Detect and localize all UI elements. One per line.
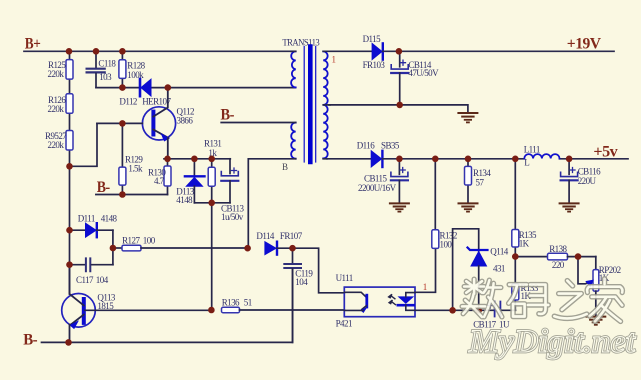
- svg-text:FR107: FR107: [280, 231, 303, 241]
- svg-text:D112: D112: [119, 97, 137, 107]
- resistor R130: [148, 159, 171, 195]
- wire B- upper: [221, 122, 296, 124]
- wire B- bottom rail: [42, 269, 293, 343]
- capacitor CB117 (polar, horizontal): [473, 302, 515, 330]
- junction +5v/CB115: [396, 156, 403, 163]
- wire B+ rail: [24, 50, 292, 52]
- resistor R128: [119, 51, 146, 87]
- svg-text:R131: R131: [204, 139, 221, 149]
- wire emitter net y=158.8: [164, 158, 230, 160]
- ground (below CB115): [390, 203, 409, 211]
- diode D114: [256, 231, 302, 254]
- svg-text:1u/50v: 1u/50v: [221, 212, 244, 222]
- svg-text:MyDigit.net: MyDigit.net: [468, 324, 636, 360]
- shunt regulator Q114 (431): [468, 247, 509, 311]
- resistor R133: [512, 257, 539, 311]
- junction +5v/CB116: [566, 156, 573, 163]
- svg-text:R134: R134: [473, 168, 491, 178]
- junction +5v/R134: [465, 156, 472, 163]
- svg-text:100k: 100k: [127, 70, 144, 80]
- svg-text:C117: C117: [76, 275, 94, 285]
- optocoupler U111: [336, 273, 415, 329]
- junction primary return/D114 anode: [244, 245, 251, 252]
- junction D111-C117/R127: [110, 245, 117, 252]
- junction B- stub/R129: [119, 191, 126, 198]
- junction left column/Q112 base link: [66, 163, 73, 170]
- svg-text:431: 431: [493, 264, 505, 274]
- svg-text:1815: 1815: [97, 301, 114, 311]
- svg-text:Q114: Q114: [490, 247, 509, 257]
- svg-text:1: 1: [332, 55, 337, 65]
- svg-text:U111: U111: [336, 273, 353, 283]
- junction Q112 emitter/R130: [164, 156, 171, 163]
- resistor R131: [204, 139, 221, 203]
- svg-text:104: 104: [295, 277, 308, 287]
- primary bottom winding: [291, 123, 296, 159]
- capacitor CB114 (polar): [391, 51, 439, 105]
- svg-text:D116: D116: [357, 140, 376, 150]
- junction D112/Q112 collector/primary: [165, 84, 172, 91]
- wire D111/C117 right link: [112, 230, 114, 265]
- svg-text:3866: 3866: [177, 116, 194, 126]
- junction R131 top: [208, 156, 215, 163]
- primary top winding: [291, 51, 296, 87]
- junction +19V/CB114: [396, 48, 403, 55]
- junction left column/C117: [66, 261, 73, 268]
- junction C118/R128/D112: [119, 84, 126, 91]
- wire secondary tap lead: [323, 104, 330, 106]
- svg-text:220k: 220k: [48, 104, 65, 114]
- wire +5v rail: [382, 158, 628, 160]
- svg-text:1.5k: 1.5k: [128, 164, 143, 174]
- junction B+/R125: [66, 48, 73, 55]
- core: [303, 47, 305, 163]
- junction D113 top: [191, 156, 198, 163]
- svg-text:B-: B-: [97, 179, 110, 196]
- svg-text:D114: D114: [256, 231, 275, 241]
- svg-text:L: L: [524, 158, 529, 168]
- svg-text:47U/50V: 47U/50V: [408, 68, 439, 78]
- wire secondary tap to ground: [329, 105, 468, 113]
- capacitor C118: [87, 51, 117, 87]
- ground (below RP202): [586, 317, 605, 325]
- capacitor CB116 (polar): [561, 159, 602, 203]
- capacitor C117: [70, 258, 113, 285]
- diode D112 (pointing left): [119, 79, 171, 107]
- svg-text:4148: 4148: [176, 195, 193, 205]
- svg-text:C118: C118: [98, 59, 116, 69]
- junction D114 out/C119: [289, 245, 296, 252]
- junction Q114 anode/feedback net: [475, 307, 482, 314]
- resistor R136: [222, 298, 345, 313]
- junction Q113 collector net/R136: [208, 307, 215, 314]
- wire Q114 cathode link: [453, 229, 479, 310]
- wire transformer bottom to D114 junction: [248, 159, 295, 248]
- resistor R126: [48, 94, 74, 114]
- svg-text:+19V: +19V: [567, 36, 602, 53]
- zener diode D113: [176, 159, 204, 205]
- wire opto LED cathode to junction: [415, 309, 453, 311]
- capacitor CB115 (polar): [358, 159, 408, 203]
- svg-text:B: B: [282, 162, 288, 172]
- svg-text:R136: R136: [222, 298, 240, 308]
- wire secondary bottom lead: [323, 158, 327, 160]
- transformer TRANS113: [282, 37, 336, 172]
- svg-text:B+: B+: [25, 35, 41, 52]
- resistor R125: [48, 60, 74, 80]
- wire B- stub: [96, 194, 168, 196]
- svg-text:R138: R138: [549, 244, 567, 254]
- junction Q112 base/R129: [119, 120, 126, 127]
- svg-text:FR103: FR103: [363, 60, 386, 70]
- svg-text:4148: 4148: [101, 214, 118, 224]
- resistor R132: [432, 159, 457, 250]
- wire secondary top to D115: [323, 50, 372, 52]
- junction R135/R138/R133: [512, 253, 519, 260]
- secondary winding: [323, 51, 328, 158]
- wire left vertical column: [69, 51, 71, 294]
- svg-text:220U: 220U: [578, 176, 597, 186]
- svg-text:2200U/16V: 2200U/16V: [358, 183, 397, 193]
- svg-text:B-: B-: [23, 332, 37, 349]
- resistor R129: [119, 123, 143, 194]
- svg-text:220: 220: [552, 260, 565, 270]
- svg-text:220k: 220k: [48, 69, 65, 79]
- svg-text:103: 103: [99, 72, 112, 82]
- wire bottom feedback net: [453, 309, 494, 311]
- svg-text:SB35: SB35: [381, 140, 400, 150]
- svg-text:4.7: 4.7: [154, 176, 165, 186]
- resistor R135: [512, 159, 537, 257]
- opto LED: [399, 297, 413, 303]
- wire +19V rail: [383, 50, 614, 52]
- svg-text:104: 104: [96, 275, 109, 285]
- diode D116: [357, 140, 400, 167]
- svg-text:TRANS113: TRANS113: [282, 37, 320, 47]
- wire Q112 base to left column: [70, 123, 98, 166]
- svg-text:D115: D115: [363, 34, 382, 44]
- svg-text:100: 100: [440, 240, 453, 250]
- wire clamp net y=87.6: [96, 87, 296, 89]
- diode D115: [363, 34, 386, 70]
- svg-text:CB115: CB115: [364, 174, 387, 184]
- svg-text:B-: B-: [221, 107, 235, 124]
- svg-text:1: 1: [423, 282, 428, 292]
- capacitor C119: [284, 248, 313, 342]
- opto arrows: [389, 294, 395, 299]
- ground (below R134): [459, 203, 478, 211]
- potentiometer RP202: [578, 257, 621, 317]
- junction B+/C118: [93, 48, 100, 55]
- wire down from R131 bottom to R136 net: [211, 203, 213, 310]
- wire D114 output to opto: [277, 248, 344, 293]
- diode D111: [70, 214, 118, 238]
- svg-text:R127: R127: [122, 236, 140, 246]
- wire bottom of D113/R131/CB113: [194, 202, 230, 204]
- resistor R9527: [45, 131, 73, 151]
- resistor R138: [515, 244, 596, 270]
- wire B+ rail into winding: [291, 50, 296, 52]
- svg-text:P421: P421: [336, 319, 352, 329]
- wire opto pin1 to R132: [415, 248, 436, 292]
- resistor R127: [113, 236, 248, 251]
- svg-text:L111: L111: [524, 144, 540, 154]
- watermark: [462, 279, 636, 360]
- junction B+/R128: [119, 48, 126, 55]
- transistor Q113: [62, 265, 212, 343]
- inductor L111: [524, 144, 560, 167]
- junction opto cathode/Q114 link: [449, 307, 456, 314]
- transistor Q112: [97, 88, 194, 159]
- ground (below CB116): [560, 203, 579, 211]
- svg-text:220k: 220k: [48, 140, 65, 150]
- junction tap/CB114 bottom: [396, 102, 403, 109]
- svg-text:D111: D111: [78, 214, 95, 224]
- svg-text:100: 100: [143, 236, 156, 246]
- svg-text:57: 57: [476, 178, 485, 188]
- svg-text:51: 51: [244, 298, 252, 308]
- junction left column/D111: [66, 227, 73, 234]
- svg-text:1K: 1K: [519, 239, 530, 249]
- junction R138/RP202: [575, 253, 582, 260]
- junction +5v/R135: [512, 156, 519, 163]
- opto phototransistor: [344, 292, 366, 297]
- junction B- rail/Q113 emitter: [65, 339, 72, 346]
- ground (top, near CB114): [458, 113, 477, 122]
- resistor R134: [465, 159, 492, 203]
- capacitor CB113 (polar): [221, 159, 244, 222]
- svg-text:+5v: +5v: [593, 144, 618, 161]
- junction +5v/R132: [432, 156, 439, 163]
- wire secondary bottom to D116: [327, 158, 371, 160]
- junction R131 bottom: [208, 200, 215, 207]
